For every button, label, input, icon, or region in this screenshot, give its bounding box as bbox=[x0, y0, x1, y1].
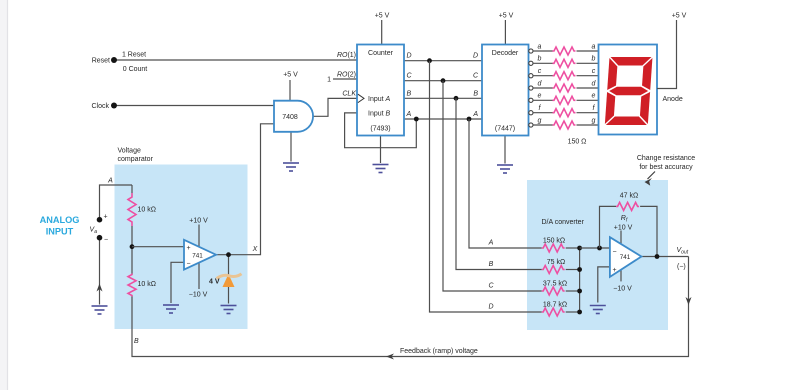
analog input - terminal bbox=[97, 235, 103, 241]
voltage comparator shaded region bbox=[115, 165, 248, 330]
svg-text:(7493): (7493) bbox=[370, 126, 390, 133]
svg-text:(−): (−) bbox=[677, 264, 686, 271]
svg-text:+10 V: +10 V bbox=[614, 225, 633, 232]
svg-text:RO(2): RO(2) bbox=[337, 72, 356, 79]
counter output labels D C B A bbox=[406, 53, 413, 119]
D/A converter shaded region bbox=[527, 180, 668, 330]
svg-text:A: A bbox=[107, 178, 113, 185]
svg-text:Reset: Reset bbox=[92, 58, 110, 65]
svg-text:C: C bbox=[473, 73, 479, 80]
junction bus C bbox=[577, 289, 582, 294]
svg-text:Input A: Input A bbox=[368, 96, 391, 103]
wire: analog source to ground with arrow bbox=[99, 238, 101, 305]
svg-text:Input B: Input B bbox=[368, 111, 391, 118]
svg-text:B: B bbox=[407, 91, 412, 98]
svg-text:18.7 kΩ: 18.7 kΩ bbox=[543, 302, 567, 309]
op-amp U5 741 DAC bbox=[610, 237, 642, 277]
wire: zener branch to ground bbox=[228, 255, 230, 304]
wire row D to summing bus bbox=[566, 311, 580, 313]
segment line a bbox=[529, 47, 599, 55]
clock terminal dot bbox=[111, 103, 117, 109]
svg-text:B: B bbox=[489, 261, 494, 268]
clock input marker on counter bbox=[358, 94, 364, 102]
DAC input node labels A B C D bbox=[488, 240, 495, 311]
DAC input resistor 75k row B bbox=[542, 266, 565, 274]
wire: counter output A to decoder bbox=[404, 118, 482, 120]
svg-text:10 kΩ: 10 kΩ bbox=[138, 281, 156, 288]
svg-text:f: f bbox=[539, 105, 542, 112]
junction feedback tap bbox=[597, 246, 602, 251]
ground below analog source bbox=[92, 306, 108, 314]
wire: counter to ground bbox=[380, 136, 382, 164]
svg-text:150 Ω: 150 Ω bbox=[568, 139, 587, 146]
svg-text:B: B bbox=[134, 338, 139, 345]
wire: +5V to AND gate bbox=[289, 80, 291, 101]
wire: DAC output to Vout and down bbox=[641, 256, 688, 258]
wire: RO(2) stub tied to 1 bbox=[333, 78, 357, 80]
segment line c bbox=[529, 72, 599, 80]
svg-text:A: A bbox=[406, 111, 412, 118]
junction B to DAC bus bbox=[454, 96, 459, 101]
svg-text:Counter: Counter bbox=[368, 50, 394, 57]
ground below - input bbox=[163, 305, 179, 313]
svg-text:Feedback (ramp) voltage: Feedback (ramp) voltage bbox=[400, 348, 478, 355]
wire: decoder to ground bbox=[504, 136, 506, 164]
svg-text:+: + bbox=[187, 245, 191, 252]
wire: C down-bus to DAC input C bbox=[443, 81, 542, 291]
junction A to DAC bus bbox=[467, 117, 472, 122]
wire: comparator op-amp to -10V bbox=[198, 263, 200, 289]
svg-text:e: e bbox=[538, 93, 542, 100]
analog input + terminal bbox=[97, 217, 103, 223]
wire: divider midpoint to op-amp + input bbox=[132, 246, 184, 248]
AND gate U2 7408 bbox=[274, 101, 313, 132]
svg-text:a: a bbox=[538, 43, 542, 50]
svg-text:CLK: CLK bbox=[342, 91, 356, 98]
resistor Rf 47k (pink zigzag) bbox=[616, 202, 639, 210]
DAC input resistor 37.5k row C bbox=[542, 287, 565, 295]
seven segment digit 8 bbox=[605, 57, 653, 125]
junction bus B bbox=[577, 267, 582, 272]
junction bus A bbox=[577, 246, 582, 251]
wire: +5V to counter bbox=[381, 20, 383, 45]
labels a-g at display side bbox=[592, 43, 597, 124]
svg-text:ANALOG: ANALOG bbox=[40, 215, 80, 225]
svg-text:e: e bbox=[592, 93, 596, 100]
svg-text:7408: 7408 bbox=[282, 114, 298, 121]
junction X node at zener bbox=[226, 252, 231, 257]
svg-text:37.5 kΩ: 37.5 kΩ bbox=[543, 281, 567, 288]
svg-text:d: d bbox=[538, 80, 543, 87]
svg-text:Anode: Anode bbox=[663, 96, 683, 103]
labels a-g at decoder side bbox=[538, 43, 543, 124]
ground below counter bbox=[373, 165, 389, 173]
svg-text:B: B bbox=[473, 91, 478, 98]
wire row A to summing bus bbox=[566, 247, 580, 249]
segment line f bbox=[529, 109, 599, 117]
decoder input labels D C B A bbox=[472, 53, 479, 119]
seven segment display box bbox=[599, 45, 658, 135]
svg-text:741: 741 bbox=[192, 252, 203, 259]
svg-text:1: 1 bbox=[327, 77, 331, 84]
wire: Reset line to counter RO(1) bbox=[114, 59, 357, 61]
junction on A wire (loop) bbox=[414, 117, 419, 122]
wire: feedback loop left+top bbox=[600, 206, 617, 248]
junction bus D bbox=[577, 310, 582, 315]
svg-text:c: c bbox=[592, 68, 596, 75]
counter U1 box bbox=[357, 45, 404, 136]
segment line e bbox=[529, 96, 599, 104]
wire: +5V to decoder bbox=[504, 20, 506, 45]
svg-text:A: A bbox=[472, 111, 478, 118]
annotation arrow to Rf bbox=[645, 172, 656, 186]
svg-text:4 V: 4 V bbox=[209, 279, 220, 286]
wire row B to summing bus bbox=[566, 269, 580, 271]
DAC input resistor 150k row A bbox=[542, 244, 565, 252]
svg-text:Va: Va bbox=[90, 227, 98, 236]
wire: anode to +5V bbox=[657, 20, 677, 89]
svg-text:+5 V: +5 V bbox=[283, 72, 298, 79]
wire: B down-bus to DAC input B bbox=[456, 98, 542, 269]
svg-text:for best accuracy: for best accuracy bbox=[639, 164, 693, 171]
wire: +10V to DAC op-amp bbox=[620, 231, 622, 245]
svg-text:−: − bbox=[613, 249, 617, 256]
svg-text:f: f bbox=[593, 105, 596, 112]
junction divider midpoint bbox=[130, 244, 135, 249]
junction output node bbox=[655, 254, 660, 259]
svg-text:−: − bbox=[187, 261, 191, 268]
reset terminal dot bbox=[111, 57, 117, 63]
wire: DAC summing bus vertical bbox=[579, 248, 581, 312]
svg-text:g: g bbox=[592, 117, 596, 124]
wire: AND gate to ground bbox=[290, 132, 292, 162]
resistor R 10k lower (pink zigzag) bbox=[128, 274, 136, 297]
wire: between divider resistors bbox=[131, 226, 133, 274]
segment line b bbox=[529, 59, 599, 67]
resistor R 10k upper (pink zigzag) bbox=[128, 193, 136, 226]
svg-text:C: C bbox=[407, 73, 413, 80]
svg-text:+5 V: +5 V bbox=[499, 13, 514, 20]
ground below DAC + input bbox=[590, 306, 606, 314]
svg-text:D: D bbox=[488, 304, 493, 311]
ground below decoder bbox=[497, 165, 513, 173]
wire: divider chain vertical bbox=[131, 185, 133, 193]
svg-text:D: D bbox=[407, 53, 412, 60]
svg-text:X: X bbox=[252, 246, 258, 253]
wire: node B down and feedback bottom run bbox=[132, 257, 689, 357]
arrow up on source wire bbox=[97, 284, 103, 292]
zener diode D1 4V bbox=[217, 274, 242, 287]
wire: bus to op-amp - input bbox=[580, 247, 610, 249]
svg-text:1 Reset: 1 Reset bbox=[122, 52, 146, 59]
op-amp U4 741 comparator bbox=[184, 240, 216, 270]
svg-text:Change resistance: Change resistance bbox=[637, 155, 695, 162]
svg-text:−10 V: −10 V bbox=[189, 292, 208, 299]
decoder U3 box bbox=[482, 45, 529, 136]
annotation Change resistance for best accuracy bbox=[637, 155, 695, 171]
svg-text:b: b bbox=[592, 56, 596, 63]
svg-text:comparator: comparator bbox=[118, 156, 154, 163]
page edge strip bbox=[0, 0, 8, 390]
svg-text:+: + bbox=[613, 267, 617, 274]
svg-text:d: d bbox=[592, 80, 597, 87]
wire: D down-bus to DAC input D bbox=[430, 61, 542, 312]
wire: QA feedback loop to Input B bbox=[345, 113, 417, 148]
junction C to DAC bus bbox=[441, 78, 446, 83]
svg-text:Vout: Vout bbox=[677, 247, 689, 256]
svg-text:47 kΩ: 47 kΩ bbox=[620, 193, 638, 200]
svg-text:(7447): (7447) bbox=[495, 126, 515, 133]
svg-text:b: b bbox=[538, 56, 542, 63]
svg-text:+5 V: +5 V bbox=[375, 13, 390, 20]
label ANALOG INPUT bbox=[40, 215, 80, 237]
wire: DAC + input to ground bbox=[598, 267, 610, 303]
DAC input resistor 18.7k row D bbox=[542, 308, 565, 316]
wire: counter output D to decoder bbox=[404, 60, 482, 62]
svg-text:Clock: Clock bbox=[91, 103, 109, 110]
svg-text:g: g bbox=[538, 117, 542, 124]
arrow left on feedback bottom wire bbox=[386, 354, 394, 360]
svg-text:a: a bbox=[592, 43, 596, 50]
svg-text:150 kΩ: 150 kΩ bbox=[543, 238, 565, 245]
arrow down on output drop wire bbox=[686, 297, 692, 305]
svg-text:−10 V: −10 V bbox=[613, 286, 632, 293]
svg-text:−: − bbox=[104, 237, 108, 244]
wire: +10V to comparator op-amp bbox=[198, 225, 200, 248]
svg-text:A: A bbox=[488, 240, 494, 247]
ground below zener bbox=[221, 306, 237, 314]
svg-text:10 kΩ: 10 kΩ bbox=[138, 207, 156, 214]
wire: gate output to counter CLK bbox=[313, 98, 357, 116]
svg-text:D: D bbox=[473, 53, 478, 60]
svg-text:Decoder: Decoder bbox=[492, 50, 519, 57]
svg-text:Voltage: Voltage bbox=[118, 148, 141, 155]
node A wire to divider top bbox=[100, 185, 133, 220]
svg-text:741: 741 bbox=[620, 254, 631, 261]
wire: A down-bus to DAC input A bbox=[469, 119, 542, 248]
segment line g bbox=[529, 121, 599, 129]
wire: counter output C to decoder bbox=[404, 80, 482, 82]
ground below gate bbox=[283, 163, 299, 171]
label Voltage comparator bbox=[118, 148, 154, 164]
svg-text:RO(1): RO(1) bbox=[337, 52, 356, 59]
svg-text:D/A converter: D/A converter bbox=[542, 219, 585, 226]
svg-text:c: c bbox=[538, 68, 542, 75]
wire: comparator - input to ground bbox=[171, 262, 184, 303]
wire: Clock line to AND gate input bbox=[114, 105, 274, 107]
svg-text:+10 V: +10 V bbox=[189, 218, 208, 225]
svg-text:75 kΩ: 75 kΩ bbox=[547, 259, 565, 266]
wire: DAC op-amp to -10V bbox=[620, 270, 622, 282]
svg-text:0 Count: 0 Count bbox=[123, 66, 148, 73]
wire: comparator output X up to gate input bbox=[216, 124, 274, 255]
svg-text:+: + bbox=[104, 214, 108, 221]
svg-text:+5 V: +5 V bbox=[672, 13, 687, 20]
wire row C to summing bus bbox=[566, 290, 580, 292]
svg-text:INPUT: INPUT bbox=[46, 227, 74, 237]
junction D to DAC bus bbox=[427, 58, 432, 63]
wire: counter output B to decoder bbox=[404, 97, 482, 99]
svg-text:C: C bbox=[488, 283, 494, 290]
segment line d bbox=[529, 84, 599, 92]
wire: feedback loop right side bbox=[640, 206, 657, 256]
